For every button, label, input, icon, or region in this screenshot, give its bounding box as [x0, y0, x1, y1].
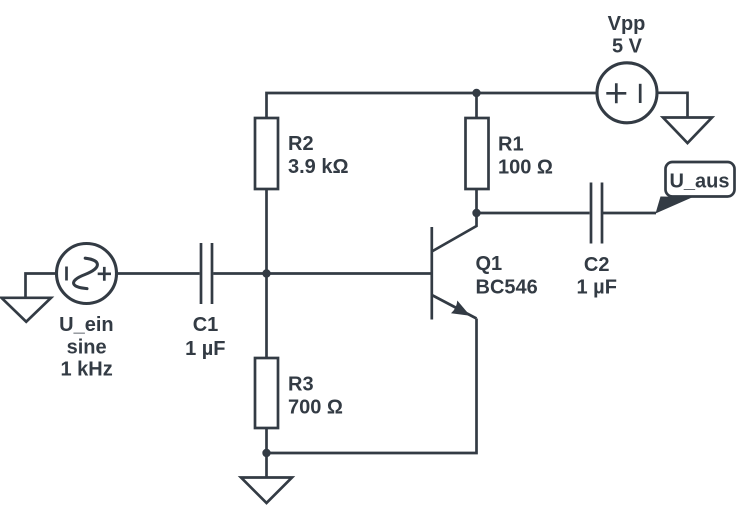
svg-text:U_aus: U_aus: [669, 171, 729, 193]
svg-text:700 Ω: 700 Ω: [288, 397, 343, 419]
svg-text:C1: C1: [193, 314, 219, 336]
svg-text:C2: C2: [584, 254, 610, 276]
svg-text:Vpp: Vpp: [608, 13, 646, 35]
svg-text:R2: R2: [288, 133, 314, 155]
svg-text:1 kHz: 1 kHz: [60, 358, 112, 380]
svg-text:3.9 kΩ: 3.9 kΩ: [288, 156, 349, 178]
svg-text:5 V: 5 V: [612, 36, 643, 58]
svg-text:1 µF: 1 µF: [185, 338, 225, 360]
svg-text:R1: R1: [498, 133, 524, 155]
svg-text:sine: sine: [67, 337, 107, 359]
svg-text:1 µF: 1 µF: [576, 277, 616, 299]
svg-text:BC546: BC546: [476, 276, 538, 298]
svg-text:U_ein: U_ein: [59, 314, 113, 336]
svg-text:Q1: Q1: [476, 253, 503, 275]
svg-text:100 Ω: 100 Ω: [498, 157, 553, 179]
svg-text:R3: R3: [288, 373, 314, 395]
